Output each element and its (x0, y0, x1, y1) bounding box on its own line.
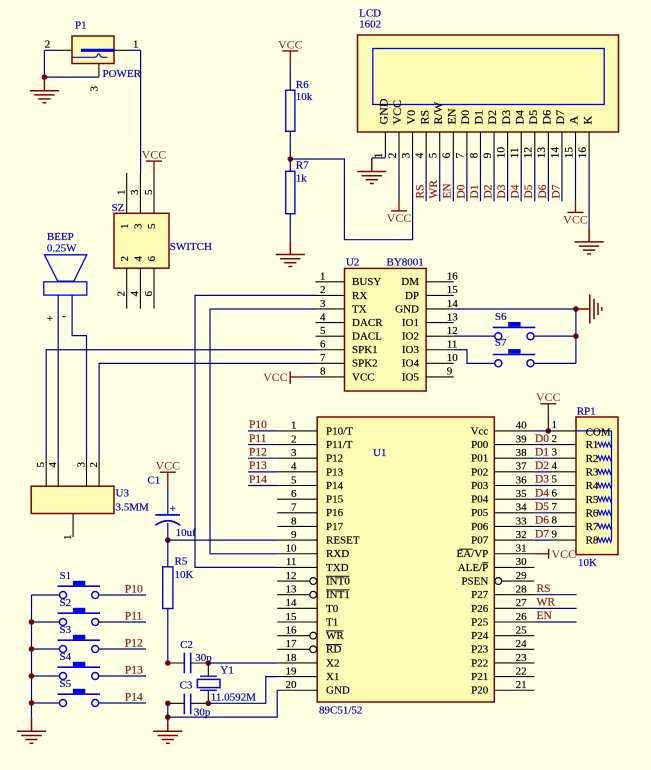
svg-text:V0: V0 (404, 110, 418, 125)
U1 pin 13 stub (277, 594, 310, 596)
svg-text:D4: D4 (512, 110, 526, 125)
svg-text:16: 16 (577, 147, 589, 159)
U1 pin 36 stub (494, 485, 534, 487)
svg-text:1602: 1602 (359, 18, 381, 30)
resistor R6 body (286, 90, 295, 131)
svg-text:12: 12 (286, 570, 297, 582)
wire P1 pin2 down to ground junction (43, 50, 45, 77)
svg-text:30: 30 (516, 556, 528, 568)
svg-text:P15: P15 (326, 494, 344, 506)
svg-text:R8: R8 (586, 535, 599, 547)
wire U1 pin 38 to RP1 pin 3 (net D1) (534, 457, 551, 459)
svg-text:T0: T0 (326, 603, 339, 615)
svg-text:S5: S5 (60, 678, 72, 690)
svg-text:10: 10 (286, 543, 298, 555)
LCD pin 11 stub (520, 132, 522, 157)
svg-text:6: 6 (146, 256, 158, 262)
svg-text:4: 4 (129, 291, 141, 297)
svg-text:C1: C1 (147, 474, 160, 486)
svg-text:D2: D2 (482, 184, 494, 198)
wire BEEP plus terminal down to U3 pin4 (57, 295, 59, 459)
svg-text:34: 34 (516, 502, 528, 514)
svg-text:33: 33 (516, 515, 528, 527)
wire net P11 at U1 pin 2 (248, 444, 277, 446)
svg-text:26: 26 (516, 611, 528, 623)
U2 pin 6 stub (316, 349, 345, 351)
U3 pin 5 stub (45, 459, 47, 486)
svg-text:D6: D6 (540, 110, 554, 125)
wire net P12 at U1 pin 3 (248, 457, 277, 459)
svg-text:2: 2 (116, 291, 128, 297)
svg-text:IO3: IO3 (402, 344, 420, 356)
U3 pin 3 stub (86, 459, 88, 486)
U1 pin 39 stub (494, 444, 534, 446)
svg-text:S3: S3 (60, 624, 72, 636)
svg-text:P13: P13 (326, 466, 344, 478)
svg-text:5: 5 (35, 462, 47, 468)
RP1 pin 1 stub (551, 430, 576, 432)
SZ pin 3 top stub (139, 173, 141, 213)
svg-text:IO1: IO1 (402, 317, 419, 329)
ground below S-button bus (17, 718, 46, 744)
U1 pin 16 name overline (326, 630, 344, 632)
resistor pack RP1 body (576, 417, 618, 555)
svg-text:4: 4 (552, 460, 558, 472)
svg-text:GND: GND (395, 303, 419, 315)
pushbutton S3 (58, 635, 101, 653)
svg-text:2: 2 (88, 462, 100, 468)
U1 pin 12 inversion bubble (310, 578, 317, 585)
svg-text:VCC: VCC (536, 390, 561, 404)
svg-text:RX: RX (352, 290, 367, 302)
LCD pin 16 stub (588, 132, 590, 157)
svg-text:3: 3 (552, 446, 558, 458)
wire U2 SPK2 pin7 to U3 pin2 (99, 363, 315, 459)
svg-text:7: 7 (455, 152, 467, 158)
svg-text:IO5: IO5 (402, 371, 420, 383)
svg-text:1: 1 (133, 38, 139, 50)
svg-text:P10: P10 (125, 583, 143, 595)
wire VCC to R6 (289, 51, 291, 65)
svg-text:WR: WR (428, 180, 440, 199)
svg-text:GND: GND (326, 685, 350, 697)
wire C2 right to X2 node (191, 662, 209, 664)
svg-text:S6: S6 (495, 311, 507, 323)
resistor R5 body (163, 567, 173, 609)
svg-text:8: 8 (291, 515, 297, 527)
svg-text:18: 18 (286, 652, 298, 664)
svg-text:P11: P11 (125, 610, 143, 622)
wire U2 pin8 to VCC (305, 376, 316, 378)
svg-text:24: 24 (516, 638, 528, 650)
svg-text:16: 16 (447, 271, 459, 283)
U1 pin 33 stub (494, 525, 534, 527)
VCC power symbol (536, 390, 561, 404)
junction dot bus at S2 (29, 619, 35, 625)
RP1 pin 3 stub (551, 457, 576, 459)
wire bus to S2 (32, 621, 60, 623)
RP1 pin 9 stub (551, 539, 576, 541)
svg-text:R6: R6 (296, 79, 309, 91)
svg-text:13: 13 (536, 147, 548, 159)
wire C-bus to ground (167, 703, 169, 717)
LCD pin 14 stub (561, 132, 563, 157)
wire LCD pin 4 net stub (425, 157, 427, 201)
U1 pin 13 name overline (326, 589, 350, 591)
P1 pin 2 stub (58, 49, 72, 51)
wire BEEP minus terminal down with jog to U3 pin3 (72, 295, 86, 459)
svg-text:P25: P25 (471, 616, 489, 628)
svg-text:Vcc: Vcc (471, 425, 489, 437)
svg-text:P12: P12 (249, 447, 267, 459)
P1 pin 3 stub (98, 64, 100, 78)
wire net EN at U1 pin 26 (534, 621, 576, 623)
svg-text:RXD: RXD (326, 548, 349, 560)
svg-text:R5: R5 (586, 494, 599, 506)
svg-text:D7: D7 (553, 110, 567, 125)
svg-text:P13: P13 (249, 460, 267, 472)
wire LCD pin 14 net stub (561, 157, 563, 201)
wire S6 right to ground bus (534, 335, 576, 337)
junction dot S6 right node (573, 333, 579, 339)
svg-text:14: 14 (447, 298, 459, 310)
svg-text:P11/T: P11/T (326, 439, 353, 451)
U1 pin 38 stub (494, 457, 534, 459)
svg-text:EA/VP: EA/VP (457, 548, 489, 560)
ground right of U2 (rotated) (578, 294, 602, 323)
wire VCC to C1 (167, 472, 169, 486)
svg-text:SWITCH: SWITCH (170, 241, 212, 253)
svg-text:P00: P00 (471, 439, 489, 451)
svg-text:P10/T: P10/T (326, 425, 353, 437)
U1 pin 13 inversion bubble (310, 591, 317, 598)
VCC power symbol at U1 pin31 (pointing left) (534, 547, 576, 561)
svg-text:3: 3 (400, 152, 412, 158)
RP1 resistor R8 zigzag (598, 538, 612, 543)
svg-text:D1: D1 (469, 184, 481, 198)
pushbutton S5 (58, 689, 101, 707)
wire R6 bottom to junction (289, 131, 291, 159)
wire P1 pin1 right (128, 49, 141, 51)
wire C2 left (168, 662, 185, 664)
RP1 internal bus vertical (611, 431, 613, 540)
wire S4 to net P13 (99, 675, 146, 677)
U1 pin 8 stub (277, 525, 317, 527)
svg-text:3: 3 (291, 447, 297, 459)
svg-text:BUSY: BUSY (352, 276, 381, 288)
svg-text:+: + (47, 313, 53, 325)
svg-text:RD: RD (326, 644, 341, 656)
wire LCD pin16 to ground (588, 157, 590, 228)
wire U1 pin 33 to RP1 pin 8 (net D6) (534, 525, 551, 527)
svg-text:2: 2 (552, 433, 558, 445)
U1 pin 32 stub (494, 539, 534, 541)
svg-text:R7: R7 (586, 521, 599, 533)
svg-text:D2: D2 (485, 110, 499, 125)
svg-text:8: 8 (468, 152, 480, 158)
wire R7 bottom to ground (289, 214, 291, 241)
svg-text:P14: P14 (125, 691, 143, 703)
wire C1 bottom to junction (167, 523, 169, 540)
svg-text:DACL: DACL (352, 331, 382, 343)
svg-text:D7: D7 (550, 184, 562, 198)
svg-text:32: 32 (516, 529, 527, 541)
svg-text:2: 2 (387, 152, 399, 158)
svg-text:15: 15 (447, 284, 459, 296)
svg-text:D1: D1 (472, 110, 486, 125)
wire X1 node to U1 pin19 with jog (208, 677, 277, 704)
LCD 1602 body (358, 35, 619, 132)
VCC power symbol below LCD pin15 (563, 212, 588, 226)
svg-text:RS: RS (415, 185, 427, 199)
wire U1 GND pin20 to ground bus (168, 690, 277, 717)
RP1 resistor R3 zigzag (598, 470, 612, 475)
VCC power symbol at U2 pin8 (pointing right) (263, 370, 305, 384)
RP1 resistor R2 zigzag (598, 456, 612, 461)
RP1 resistor R7 zigzag (598, 524, 612, 529)
svg-text:VCC: VCC (552, 547, 577, 561)
jack U3 body (31, 486, 114, 513)
svg-text:3: 3 (133, 223, 145, 229)
U3 pin 2 stub (98, 459, 100, 486)
U1 pin 22 stub (494, 676, 534, 678)
svg-text:1: 1 (119, 224, 131, 230)
svg-text:VCC: VCC (155, 459, 180, 473)
svg-text:7: 7 (291, 502, 297, 514)
LCD pin 6 stub (452, 132, 454, 157)
U1 pin 10 stub (277, 553, 317, 555)
wire P1 pin1 down to SZ pin3 (140, 50, 142, 173)
SZ pin 5 top stub (153, 173, 155, 213)
svg-text:25: 25 (516, 624, 528, 636)
wire C3 right to X1 node (191, 702, 209, 704)
svg-text:R4: R4 (586, 480, 599, 492)
svg-text:1: 1 (116, 190, 128, 196)
svg-text:P03: P03 (471, 480, 489, 492)
svg-text:D0: D0 (455, 184, 467, 198)
svg-text:1k: 1k (296, 172, 308, 184)
U2 pin 14 stub (426, 308, 454, 310)
wire LCD pin 13 net stub (547, 157, 549, 201)
connector P1 barrel bar symbol (81, 49, 114, 52)
svg-text:5: 5 (552, 474, 558, 486)
svg-text:D5: D5 (526, 110, 540, 125)
svg-text:4: 4 (133, 256, 145, 262)
wire junction to R7 top (289, 159, 291, 171)
wire U1 pin 37 to RP1 pin 4 (net D2) (534, 471, 551, 473)
wire LCD pin 10 net stub (507, 157, 509, 201)
speaker BEEP horn (44, 255, 86, 281)
U1 pin 5 stub (277, 485, 317, 487)
svg-text:9: 9 (447, 366, 453, 378)
svg-text:10K: 10K (578, 557, 597, 569)
LCD pin 3 stub (412, 132, 414, 157)
U1 pin 27 stub (494, 607, 534, 609)
U1 pin 19 stub (277, 676, 317, 678)
svg-text:R2: R2 (586, 453, 599, 465)
svg-text:4: 4 (47, 462, 59, 468)
svg-text:11: 11 (447, 339, 458, 351)
U1 pin 7 stub (277, 512, 317, 514)
svg-text:S1: S1 (60, 570, 72, 582)
svg-text:11: 11 (509, 147, 521, 158)
pushbutton S2 (58, 608, 101, 626)
wire VCC stem to SZ pin5 (153, 161, 155, 173)
wire U1 pin 39 to RP1 pin 2 (net D0) (534, 444, 551, 446)
LCD pin 13 stub (547, 132, 549, 157)
wire S-button left bus (31, 595, 33, 718)
U1 pin 4 stub (277, 471, 317, 473)
svg-text:3.5MM: 3.5MM (116, 501, 150, 513)
wire S1 to net P10 (99, 594, 146, 596)
U1 pin 34 stub (494, 512, 534, 514)
wire S5 to net P14 (99, 702, 146, 704)
svg-text:D6: D6 (537, 184, 549, 198)
P1 pin 1 stub (114, 49, 128, 51)
U2 pin 3 stub (316, 308, 345, 310)
svg-text:3: 3 (75, 462, 87, 468)
U1 pin 14 stub (277, 607, 317, 609)
U2 pin 11 stub (426, 349, 454, 351)
wire U2 IO3 pin11 jog to S7 (454, 350, 495, 364)
svg-text:10uf: 10uf (176, 527, 197, 539)
svg-text:P27: P27 (471, 589, 489, 601)
wire LCD pin15 to VCC (575, 157, 577, 201)
svg-text:INT1: INT1 (326, 589, 350, 601)
RP1 pin 6 stub (551, 498, 576, 500)
SZ pin 4 bottom stub (139, 268, 141, 308)
LCD pin 5 stub (439, 132, 441, 157)
svg-text:15: 15 (286, 611, 298, 623)
svg-text:29: 29 (516, 570, 528, 582)
svg-text:6: 6 (143, 291, 155, 297)
svg-text:X2: X2 (326, 657, 339, 669)
svg-text:D0: D0 (535, 433, 549, 445)
U1 pin 35 stub (494, 498, 534, 500)
svg-text:7: 7 (320, 352, 326, 364)
crystal Y1 body rectangle (197, 679, 220, 687)
svg-text:S4: S4 (60, 651, 72, 663)
ground below LCD pin16 (575, 228, 604, 254)
svg-text:4: 4 (414, 152, 426, 158)
U2 pin 9 stub (426, 376, 454, 378)
wire net WR at U1 pin 27 (534, 607, 576, 609)
svg-text:P23: P23 (471, 644, 489, 656)
svg-text:12: 12 (523, 147, 535, 159)
U2 pin 1 stub (316, 281, 345, 283)
wire LCD pin2 to VCC (398, 157, 400, 200)
svg-text:9: 9 (291, 529, 297, 541)
U2 pin 16 stub (426, 281, 454, 283)
U1 pin 6 stub (277, 498, 317, 500)
ground below LCD pin1 (357, 158, 386, 184)
wire LCD pin 9 net stub (493, 157, 495, 201)
junction dot X1/Y1 node (206, 701, 212, 707)
RP1 pin 4 stub (551, 471, 576, 473)
LCD pin 1 stub (384, 132, 386, 157)
svg-text:P21: P21 (471, 671, 488, 683)
RP1 pin 8 stub (551, 525, 576, 527)
U1 pin 18 stub (277, 662, 317, 664)
overline on P of ALE/P (482, 562, 488, 564)
svg-text:U2: U2 (346, 256, 359, 268)
svg-text:1: 1 (320, 271, 326, 283)
connector P1 contact line with bump (72, 54, 107, 58)
U1 pin 40 stub (494, 430, 534, 432)
U1 pin 23 stub (494, 662, 534, 664)
svg-text:R6: R6 (586, 507, 599, 519)
svg-text:P12: P12 (125, 637, 143, 649)
svg-text:P17: P17 (326, 521, 344, 533)
svg-text:S7: S7 (495, 337, 507, 349)
svg-text:20: 20 (286, 679, 298, 691)
U2 pin 4 stub (316, 322, 345, 324)
wire P1 pin3 to ground junction (44, 76, 99, 78)
svg-text:P26: P26 (471, 603, 489, 615)
svg-text:DACR: DACR (352, 317, 383, 329)
svg-text:X1: X1 (326, 671, 339, 683)
switch SZ body (114, 213, 169, 268)
svg-text:BY8001: BY8001 (387, 256, 424, 268)
svg-text:9: 9 (482, 152, 494, 158)
U1 pin 16 inversion bubble (310, 632, 317, 639)
svg-text:RS: RS (537, 583, 551, 595)
svg-text:23: 23 (516, 652, 528, 664)
U1 pin 31 stub (494, 553, 534, 555)
junction dot C1/R5/RESET node (165, 537, 171, 543)
svg-text:VCC: VCC (563, 213, 588, 227)
svg-text:P12: P12 (326, 453, 343, 465)
svg-text:GND: GND (377, 98, 391, 124)
svg-text:EN: EN (442, 183, 454, 199)
svg-text:COM: COM (586, 426, 611, 438)
wire net RS at U1 pin 28 (534, 594, 576, 596)
svg-text:39: 39 (516, 433, 528, 445)
pushbutton S6 (493, 322, 536, 340)
wire C3 left (168, 702, 185, 704)
svg-text:5: 5 (291, 474, 297, 486)
svg-text:1: 1 (552, 419, 558, 431)
svg-text:2: 2 (45, 38, 51, 50)
RP1 pin 7 stub (551, 512, 576, 514)
svg-text:6: 6 (441, 152, 453, 158)
wire S2 to net P11 (99, 621, 146, 623)
svg-text:7: 7 (552, 501, 558, 513)
RP1 pin 2 stub (551, 444, 576, 446)
wire Y1 top (207, 663, 209, 676)
wire U2 TX pin3 to U1 RXD (210, 309, 316, 554)
wire bus to S5 (32, 702, 60, 704)
svg-text:P07: P07 (471, 535, 489, 547)
junction dot C3 left node (165, 701, 171, 707)
wire RESET node to U1 pin9 (168, 539, 277, 541)
wire U2 RX pin2 to U1 TXD (195, 295, 316, 567)
U1 pin 28 stub (494, 594, 534, 596)
svg-text:9: 9 (552, 528, 558, 540)
svg-text:R3: R3 (586, 466, 599, 478)
svg-text:A: A (567, 116, 581, 125)
svg-text:C3: C3 (180, 679, 193, 691)
svg-text:5: 5 (320, 325, 326, 337)
connector P1 body (72, 36, 114, 64)
svg-text:2: 2 (320, 284, 326, 296)
U1 pin 24 stub (494, 648, 534, 650)
svg-text:RP1: RP1 (577, 406, 596, 418)
U1 pin 21 stub (494, 689, 534, 691)
U1 pin 11 stub (277, 566, 317, 568)
U2 pin 8 stub (316, 376, 345, 378)
svg-text:P14: P14 (326, 480, 344, 492)
